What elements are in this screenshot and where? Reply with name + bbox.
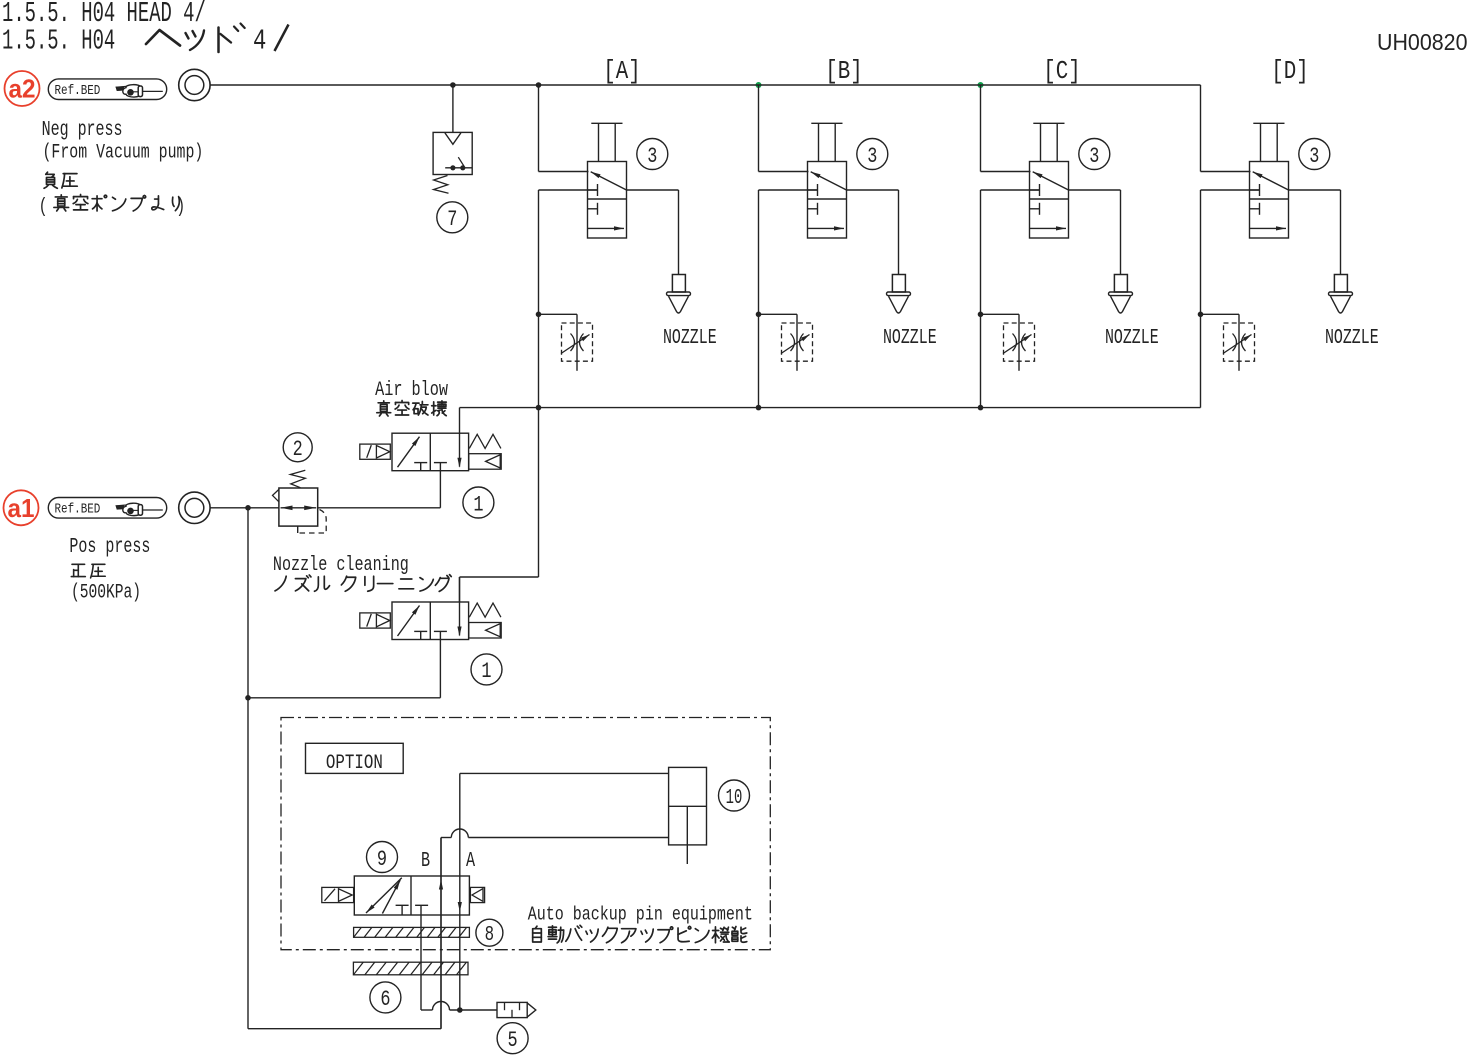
svg-text:3: 3 — [647, 143, 657, 169]
wire air blow output to bus — [459, 408, 461, 434]
speed controller column [A] — [536, 312, 542, 318]
circle 3 column [D] — [1299, 139, 1330, 170]
valve 3 column [A] body — [588, 162, 627, 239]
pressure switch 7 — [433, 132, 472, 174]
svg-text:9: 9 — [377, 846, 387, 872]
valve 3 column [C] plunger actuator — [1033, 122, 1064, 124]
svg-text:[A]: [A] — [603, 57, 640, 87]
svg-text:NOZZLE: NOZZLE — [1105, 327, 1159, 350]
valve 3 column [C] body — [1030, 162, 1069, 239]
svg-text:5: 5 — [508, 1027, 518, 1053]
wire B supply through bars — [440, 915, 442, 1029]
valve 9 down arrow A — [459, 876, 461, 915]
svg-text:(500KPa): (500KPa) — [71, 582, 141, 605]
hatched plate 8 — [354, 927, 470, 937]
valve 3 column [A] plunger actuator — [591, 122, 622, 124]
valve 3 column [D] body — [1250, 162, 1289, 239]
svg-text:NOZZLE: NOZZLE — [663, 327, 717, 350]
junction dots top bus — [450, 82, 456, 88]
label a1 — [4, 490, 39, 525]
valve 3 column [B] plunger actuator — [811, 122, 842, 124]
svg-text:NOZZLE: NOZZLE — [883, 327, 937, 350]
svg-text:Ref.BED: Ref.BED — [55, 83, 101, 99]
svg-text:B: B — [421, 850, 430, 873]
svg-text:Auto backup pin equipment: Auto backup pin equipment — [528, 905, 753, 926]
speed controller column [D] — [1198, 312, 1204, 318]
wire A exhaust down — [459, 915, 461, 1010]
svg-text:1.5.5. H04: 1.5.5. H04 — [2, 26, 115, 58]
regulator 2 — [279, 488, 318, 526]
svg-text:Nozzle cleaning: Nozzle cleaning — [273, 554, 409, 577]
valve 9 solenoid — [322, 887, 354, 902]
wire supply bottom run to valve 9 — [248, 1028, 441, 1030]
svg-text:Air blow: Air blow — [375, 379, 448, 402]
wire a1 to regulator — [210, 507, 279, 509]
wires column [D] — [1200, 85, 1202, 172]
circle 5 — [497, 1023, 528, 1054]
svg-text:3: 3 — [1309, 143, 1319, 169]
wire column A down to nozzle cleaning feed — [538, 408, 540, 577]
nozzle cleaning valve 1 — [392, 602, 469, 640]
nozzle column [C] — [1114, 275, 1127, 293]
svg-text:a1: a1 — [8, 493, 35, 523]
svg-text:3: 3 — [1089, 143, 1099, 169]
nozzle column [A] — [672, 275, 685, 293]
svg-text:[D]: [D] — [1271, 57, 1308, 87]
svg-text:A: A — [466, 850, 475, 873]
svg-text:Neg press: Neg press — [42, 119, 123, 142]
wires column [B] — [758, 85, 760, 172]
label a2 — [5, 71, 40, 106]
svg-text:UH00820: UH00820 — [1377, 29, 1468, 55]
svg-text:Pos press: Pos press — [69, 536, 150, 559]
svg-text:10: 10 — [726, 786, 743, 810]
valve 9 pilot return — [470, 887, 484, 902]
svg-text:a2: a2 — [9, 74, 36, 104]
circle 8 — [476, 919, 503, 946]
nozzle column [D] — [1334, 275, 1347, 293]
svg-text:OPTION: OPTION — [326, 752, 383, 774]
cylinder 10 — [669, 767, 707, 845]
svg-text:8: 8 — [485, 923, 494, 947]
wire nozzle cleaning output up — [459, 577, 461, 602]
port circle a1 — [179, 492, 210, 523]
valve 9 crossed arrows — [366, 878, 402, 913]
circle 2 — [283, 433, 312, 462]
valve 3 column [B] body — [808, 162, 847, 239]
wire top vacuum bus — [210, 84, 1200, 86]
circle 3 column [B] — [857, 139, 888, 170]
wires column [C] — [980, 85, 982, 172]
circle 9 — [367, 842, 398, 873]
Ref.BED tag a2 — [48, 79, 166, 100]
speed controller column [B] — [756, 312, 762, 318]
wire pos press main line down — [247, 508, 249, 1029]
svg-text:(: ( — [39, 196, 48, 219]
svg-text:NOZZLE: NOZZLE — [1325, 327, 1379, 350]
wire cylinder A-line — [460, 772, 669, 774]
svg-text:(From Vacuum pump): (From Vacuum pump) — [43, 142, 204, 165]
svg-text:1: 1 — [481, 658, 491, 684]
wire bottom air-blow bus — [539, 407, 1201, 409]
OPTION dash-dot border — [281, 718, 770, 950]
circle 1 nozzle cleaning — [471, 654, 502, 685]
circle 1 air blow — [463, 487, 494, 518]
Ref.BED tag a1 — [48, 498, 166, 519]
nozzle column [B] — [892, 275, 905, 293]
wires column [A] — [538, 85, 540, 172]
svg-text:3: 3 — [867, 143, 877, 169]
junction dots top bus (green) — [756, 82, 762, 88]
port circle a2 — [179, 69, 210, 100]
svg-text:[B]: [B] — [825, 57, 862, 87]
speed controller column [C] — [978, 312, 984, 318]
circle 10 — [719, 780, 750, 811]
svg-text:6: 6 — [380, 986, 390, 1012]
wire nozzle cleaning supply — [439, 640, 441, 698]
hand icon a1 — [116, 504, 134, 509]
air blow valve 1 — [392, 433, 469, 471]
valve 9 blocked ports — [396, 904, 409, 906]
circle 3 column [C] — [1079, 139, 1110, 170]
pressure switch 7 wire — [452, 85, 454, 132]
valve 3 column [D] plunger actuator — [1253, 122, 1284, 124]
hand icon a2 — [116, 86, 134, 91]
OPTION label box — [306, 743, 404, 773]
svg-text:4: 4 — [253, 25, 266, 57]
wire air blow supply — [439, 471, 441, 508]
svg-text:): ) — [176, 196, 185, 219]
valve 9 up arrow B — [440, 876, 442, 915]
hatched plate 6 — [353, 962, 468, 975]
silencer 5 — [497, 1002, 527, 1017]
kanji Neg press — [44, 172, 57, 188]
valve 9 body — [354, 876, 469, 915]
circle 3 column [A] — [637, 139, 668, 170]
wire exhaust from valve 9 left port — [420, 905, 422, 1010]
wire cylinder B-line with hop — [468, 837, 668, 839]
svg-text:[C]: [C] — [1043, 57, 1080, 87]
svg-text:2: 2 — [293, 436, 303, 462]
svg-text:Ref.BED: Ref.BED — [55, 501, 101, 517]
svg-text:1: 1 — [473, 491, 483, 517]
svg-text:7: 7 — [447, 206, 457, 232]
circle 6 — [370, 982, 401, 1013]
circle 7 — [437, 202, 468, 233]
